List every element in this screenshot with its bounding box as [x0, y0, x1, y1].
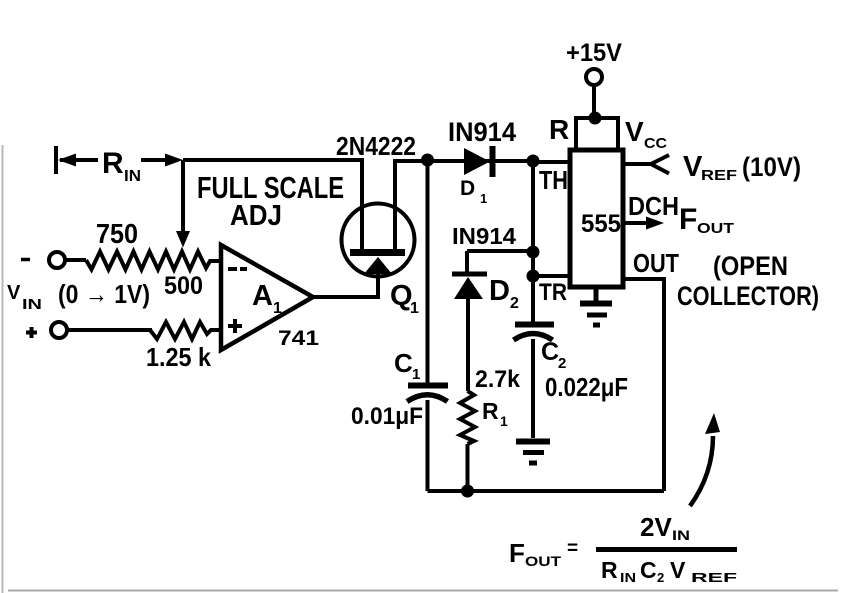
svg-text:IN: IN	[124, 168, 141, 185]
svg-text:OUT: OUT	[697, 220, 734, 237]
svg-text:R: R	[102, 147, 124, 180]
svg-text:1.25 k: 1.25 k	[146, 342, 211, 372]
svg-text:C: C	[394, 348, 413, 378]
svg-text:2: 2	[558, 355, 566, 372]
svg-text:R: R	[601, 557, 618, 583]
svg-text:C: C	[640, 557, 657, 583]
svg-text:1: 1	[500, 413, 508, 429]
svg-text:V: V	[625, 116, 644, 147]
svg-text:OUT: OUT	[633, 248, 679, 278]
svg-text:DCH: DCH	[628, 191, 679, 221]
svg-text:1: 1	[273, 300, 282, 317]
svg-text:IN: IN	[620, 570, 636, 585]
svg-text:V: V	[683, 151, 703, 183]
svg-text:1: 1	[410, 300, 419, 317]
svg-text:IN: IN	[22, 296, 42, 313]
svg-text:F: F	[509, 538, 525, 568]
svg-text:+15V: +15V	[566, 39, 622, 67]
svg-text:2.7k: 2.7k	[475, 366, 521, 393]
svg-text:D: D	[489, 275, 510, 307]
svg-text:1: 1	[412, 366, 420, 383]
svg-text:(10V): (10V)	[742, 152, 801, 182]
svg-text:CC: CC	[644, 135, 667, 152]
svg-text:ADJ: ADJ	[230, 200, 282, 232]
svg-text:IN914: IN914	[448, 117, 516, 147]
svg-text:F: F	[679, 203, 697, 236]
svg-text:0.022μF: 0.022μF	[545, 372, 628, 402]
svg-text:OUT: OUT	[525, 553, 562, 569]
svg-text:741: 741	[278, 327, 319, 350]
svg-text:(OPEN: (OPEN	[713, 251, 788, 281]
svg-text:2N4222: 2N4222	[336, 131, 416, 161]
svg-text:500: 500	[164, 272, 203, 300]
svg-text:2V: 2V	[640, 512, 672, 542]
svg-text:V: V	[7, 282, 21, 304]
svg-text:D: D	[460, 177, 475, 200]
svg-text:IN: IN	[672, 527, 690, 543]
svg-text:750: 750	[96, 218, 138, 249]
svg-text:REF: REF	[691, 570, 737, 585]
svg-text:COLLECTOR): COLLECTOR)	[677, 281, 819, 311]
svg-text:=: =	[567, 538, 578, 559]
svg-text:TH: TH	[539, 165, 568, 195]
svg-text:C: C	[541, 338, 559, 366]
svg-text:A: A	[252, 280, 273, 312]
svg-text:0.01μF: 0.01μF	[351, 403, 423, 430]
svg-text:1: 1	[480, 191, 487, 206]
svg-text:IN914: IN914	[452, 223, 516, 249]
svg-text:555: 555	[581, 210, 621, 238]
svg-text:R: R	[482, 398, 499, 424]
svg-text:TR: TR	[539, 279, 567, 306]
svg-text:R: R	[549, 114, 569, 145]
svg-text:(0 → 1V): (0 → 1V)	[58, 279, 150, 309]
svg-text:REF: REF	[701, 167, 737, 184]
svg-text:2: 2	[510, 295, 519, 312]
svg-text:V: V	[670, 557, 686, 583]
svg-text:2: 2	[657, 570, 664, 585]
